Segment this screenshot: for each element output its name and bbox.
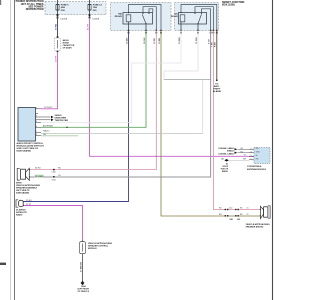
svg-text:19 PK/VT: 19 PK/VT (44, 107, 53, 109)
svg-text:C40: C40 (229, 208, 232, 210)
svg-text:MODULE: MODULE (88, 248, 97, 250)
svg-text:ALARM: ALARM (213, 90, 221, 93)
svg-text:RADIO: RADIO (43, 130, 50, 133)
svg-text:57 BK/GN: 57 BK/GN (81, 261, 83, 272)
svg-text:5: 5 (36, 121, 37, 123)
svg-text:34 RD: 34 RD (35, 168, 41, 170)
svg-text:COAXIAL CABLE: COAXIAL CABLE (218, 152, 234, 155)
svg-text:7: 7 (36, 131, 37, 133)
svg-text:OF VEHICLE: OF VEHICLE (78, 291, 90, 293)
svg-text:TWISTED PAIR: TWISTED PAIR (55, 119, 69, 122)
svg-text:RELAY: RELAY (115, 15, 123, 18)
svg-text:11 WH: 11 WH (196, 37, 198, 44)
svg-text:21: 21 (247, 208, 249, 210)
svg-text:4: 4 (251, 148, 252, 150)
svg-text:B+: B+ (256, 155, 258, 157)
svg-text:41: 41 (221, 158, 223, 161)
svg-text:BOX (SJB): BOX (SJB) (222, 4, 235, 7)
svg-text:RADIO: RADIO (222, 170, 229, 173)
svg-text:DISTRIBUTION: DISTRIBUTION (26, 8, 44, 11)
svg-text:6: 6 (36, 126, 37, 128)
svg-text:12 PK: 12 PK (154, 38, 156, 44)
svg-text:1: 1 (251, 158, 252, 160)
svg-text:35 GN/BU: 35 GN/BU (35, 176, 44, 178)
svg-text:C1035B: C1035B (60, 18, 68, 20)
svg-text:13 BN: 13 BN (159, 37, 161, 44)
svg-text:DASH (BASE): DASH (BASE) (17, 150, 32, 153)
svg-text:21 VT: 21 VT (87, 24, 89, 30)
svg-text:10 WH: 10 WH (179, 37, 181, 44)
svg-text:S310: S310 (52, 180, 56, 182)
svg-text:3: 3 (251, 151, 252, 153)
svg-text:C2280B: C2280B (92, 18, 100, 20)
svg-text:DASH (BASE): DASH (BASE) (16, 191, 29, 194)
svg-text:ANTENNA MODULE: ANTENNA MODULE (247, 168, 267, 171)
svg-text:RF-: RF- (256, 159, 259, 161)
svg-text:20A: 20A (61, 6, 65, 9)
svg-text:OF DASH: OF DASH (63, 46, 73, 49)
svg-text:C310: C310 (52, 172, 56, 174)
svg-text:22: 22 (247, 214, 249, 216)
svg-text:RADIO: RADIO (16, 214, 23, 217)
svg-text:3: 3 (36, 116, 37, 118)
svg-text:8: 8 (36, 134, 37, 136)
svg-text:1: 1 (36, 107, 37, 109)
svg-text:S40: S40 (230, 218, 233, 221)
svg-text:VEHICLE APPROACHING: VEHICLE APPROACHING (246, 223, 271, 226)
svg-text:2: 2 (251, 155, 252, 157)
svg-text:SPEAKER (RIGHT): SPEAKER (RIGHT) (246, 225, 264, 228)
svg-text:RELAY: RELAY (171, 15, 179, 18)
svg-text:C41: C41 (237, 218, 240, 221)
svg-text:20 RD: 20 RD (55, 23, 57, 30)
svg-text:RF+: RF+ (256, 148, 259, 150)
svg-text:19 VT: 19 VT (55, 56, 57, 62)
svg-text:15A: 15A (93, 6, 97, 9)
svg-text:21 BU: 21 BU (26, 200, 32, 202)
svg-text:COAXIAL CABLE: COAXIAL CABLE (218, 147, 234, 150)
svg-text:ANTENNA: ANTENNA (43, 124, 53, 127)
